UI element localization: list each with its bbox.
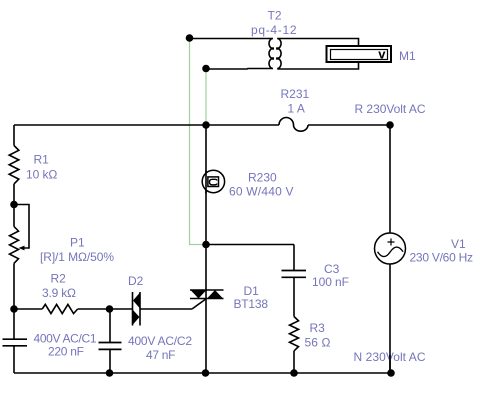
svg-text:R3: R3 [310,321,326,335]
svg-text:T2: T2 [268,9,282,23]
svg-text:pq-4-12: pq-4-12 [251,23,297,37]
svg-text:1 A: 1 A [288,102,305,116]
svg-text:10 kΩ: 10 kΩ [26,168,57,182]
svg-text:400V AC/C1: 400V AC/C1 [34,332,97,346]
svg-text:R230: R230 [248,171,277,185]
svg-text:230 V/60 Hz: 230 V/60 Hz [410,251,474,265]
svg-text:D1: D1 [244,284,260,298]
svg-text:56 Ω: 56 Ω [305,336,331,350]
svg-text:R2: R2 [51,272,67,286]
svg-text:C3: C3 [324,262,340,276]
svg-text:400V AC/C2: 400V AC/C2 [128,334,192,348]
svg-text:M1: M1 [399,49,416,63]
svg-text:220 nF: 220 nF [48,345,84,359]
svg-text:V1: V1 [451,237,466,251]
svg-text:BT138: BT138 [234,297,269,311]
svg-text:R231: R231 [281,87,310,101]
svg-text:[R]/1 MΩ/50%: [R]/1 MΩ/50% [40,250,114,264]
svg-text:v: v [378,46,386,61]
svg-text:47 nF: 47 nF [146,348,176,362]
svg-text:100 nF: 100 nF [312,275,349,289]
svg-text:R1: R1 [34,153,50,167]
svg-text:R 230Volt AC: R 230Volt AC [355,102,426,116]
svg-text:P1: P1 [70,236,85,250]
svg-text:60 W/440 V: 60 W/440 V [229,185,294,199]
svg-text:D2: D2 [128,274,144,288]
svg-text:3.9 kΩ: 3.9 kΩ [42,286,76,300]
